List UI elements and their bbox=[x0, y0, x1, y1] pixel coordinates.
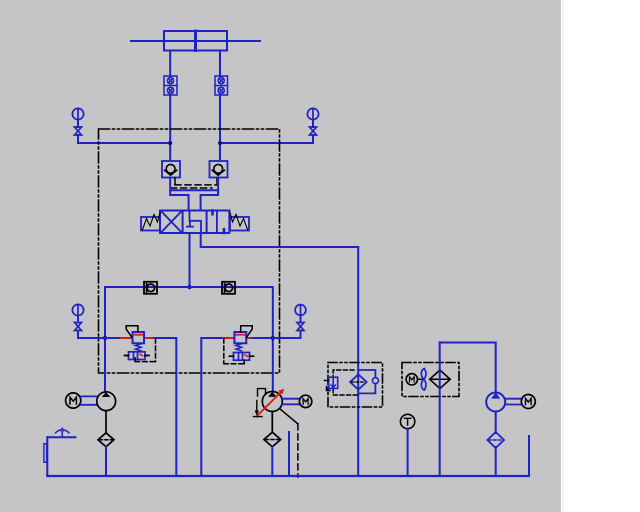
wire temp gauge to tank bbox=[407, 429, 409, 476]
shaft pump1 bbox=[81, 396, 97, 404]
directional valve U1 body bbox=[160, 211, 229, 234]
tank left wall bbox=[46, 437, 48, 476]
relief valve V1 drain (dashed) bbox=[135, 339, 155, 362]
solenoid right bbox=[230, 217, 249, 231]
wire F2 to tank bbox=[271, 447, 273, 476]
tank breather bbox=[56, 428, 69, 437]
relief valve V1 spring bbox=[136, 344, 142, 351]
wire relief V1 outlet to tank bbox=[154, 338, 176, 476]
pump P1 bbox=[97, 392, 116, 411]
relief valve V2 pilot (black) bbox=[241, 326, 253, 337]
pump P3 suction bbox=[495, 412, 497, 434]
relief valve V1 red inlet bbox=[121, 337, 154, 339]
relief valve V2 body bbox=[234, 332, 246, 343]
wire cylinder right port bbox=[219, 51, 221, 77]
node junction left bbox=[168, 141, 172, 145]
pump P2 compensator (black) bbox=[254, 389, 266, 417]
shaft pump3 bbox=[505, 399, 521, 405]
tank level gauge bbox=[44, 444, 47, 463]
tank filler line bbox=[47, 436, 75, 438]
pump P2 suction (black) bbox=[271, 412, 273, 433]
wire pump3 to cooler bbox=[440, 343, 496, 393]
tank right wall bbox=[528, 436, 530, 476]
filter station box (dash-dot) bbox=[328, 363, 383, 408]
node pump2 junction bbox=[271, 336, 275, 340]
wire gauge TR to right line bbox=[220, 142, 313, 144]
directional valve right position through lines bbox=[216, 211, 218, 234]
tank bottom line bbox=[47, 475, 529, 477]
pump P1 suction (black) bbox=[105, 411, 107, 433]
wire case drain bbox=[288, 432, 290, 476]
relief valve V1 body bbox=[133, 332, 145, 343]
double check valve block right bbox=[215, 76, 228, 95]
check valve pump1 (black) bbox=[144, 282, 157, 294]
pilot cross line stubs (black) bbox=[175, 178, 217, 185]
wire pressure manifold bbox=[105, 287, 273, 392]
relief valve V2 solenoid stage bbox=[234, 353, 250, 361]
cylinder (double-rod) bbox=[131, 31, 260, 51]
relief valve V2 red internal bbox=[236, 334, 245, 336]
cooler (black diamond) bbox=[430, 370, 451, 389]
node pump1 junction bbox=[103, 336, 107, 340]
wire cylinder left port bbox=[169, 51, 171, 77]
relief valve V1 red internal bbox=[134, 334, 143, 336]
wire gauge BL to relief valve bbox=[78, 337, 121, 339]
pump P2 variable arrow (red) bbox=[257, 391, 283, 417]
pump P2 (variable) bbox=[262, 392, 282, 412]
relief valve V2 inlet corner bbox=[201, 338, 223, 476]
node P junction bbox=[187, 285, 191, 289]
bypass relief valve bbox=[329, 377, 338, 388]
wire cooler line bbox=[439, 343, 441, 477]
directional valve centre position P-T dogleg bbox=[190, 211, 202, 234]
node junction right bbox=[218, 141, 222, 145]
filter bypass loop bbox=[358, 370, 375, 393]
relief valve V2 drain (dashed) bbox=[224, 339, 244, 364]
filter F3 diamond bbox=[350, 374, 367, 389]
pressure gauge bottom left bbox=[72, 304, 83, 338]
wire return line through filter station bbox=[357, 247, 359, 476]
wire right cylinder line down bbox=[219, 95, 221, 159]
check valve pump2 (black) bbox=[222, 282, 235, 294]
pressure gauge top left bbox=[72, 108, 83, 143]
wire valve A staircase bbox=[170, 178, 188, 211]
wire left cylinder line down bbox=[169, 95, 171, 159]
filter F2 (black diamond) bbox=[264, 432, 281, 447]
relief valve V2 red inlet bbox=[223, 337, 253, 339]
pump P2 drain dashed bbox=[297, 424, 299, 477]
solenoid left bbox=[141, 217, 160, 231]
pump P3 (blue) bbox=[486, 393, 505, 412]
wire gauge TL to left line bbox=[78, 142, 170, 144]
wire P riser bbox=[189, 233, 191, 287]
bypass pilot dashed (black) bbox=[333, 370, 358, 395]
wire gauge BR to junction bbox=[273, 337, 301, 339]
filter F4 (blue diamond) bbox=[487, 432, 504, 448]
cooler station box (dash-dot) bbox=[402, 363, 459, 397]
shaft pump2 bbox=[282, 399, 299, 405]
directional valve left position crossed arrows bbox=[162, 212, 182, 233]
wire relief V2 outlet bbox=[253, 337, 273, 339]
double check valve block left bbox=[164, 76, 177, 95]
temperature gauge T bbox=[400, 414, 414, 428]
relief valve V1 pilot (black) bbox=[126, 326, 138, 337]
pump P2 drain diagonal (black) bbox=[280, 409, 298, 424]
pressure gauge bottom right bbox=[295, 305, 306, 338]
pilot operated check valve right bbox=[210, 161, 228, 178]
enclosure dash-dot boundary box bbox=[99, 129, 280, 373]
filter F1 (black diamond) bbox=[98, 433, 114, 447]
wire T line down and right bbox=[201, 233, 359, 247]
wire valve B staircase bbox=[201, 178, 219, 211]
pilot operated check valve left bbox=[162, 161, 180, 178]
wire bridge crossover bbox=[170, 189, 218, 191]
pilot cross line (dashed) bbox=[175, 184, 217, 186]
cooler fan motor bbox=[406, 374, 417, 385]
spring right (black) bbox=[230, 213, 248, 230]
clogging indicator bbox=[372, 378, 378, 384]
pilot cross line 2 (dashed) bbox=[171, 187, 212, 189]
relief valve V1 solenoid stage bbox=[129, 352, 146, 360]
motor M3 bbox=[521, 395, 535, 409]
wire F4 to tank bbox=[495, 447, 497, 476]
spring left (black) bbox=[143, 213, 161, 230]
fan blades (blue) bbox=[421, 369, 426, 380]
pressure gauge top right bbox=[307, 108, 318, 143]
relief valve V2 spring bbox=[236, 344, 242, 351]
wire F1 to tank bbox=[105, 447, 107, 476]
motor M1 bbox=[66, 393, 81, 408]
motor M2 bbox=[299, 395, 311, 407]
directional valve centre position blocked port bbox=[187, 222, 193, 227]
